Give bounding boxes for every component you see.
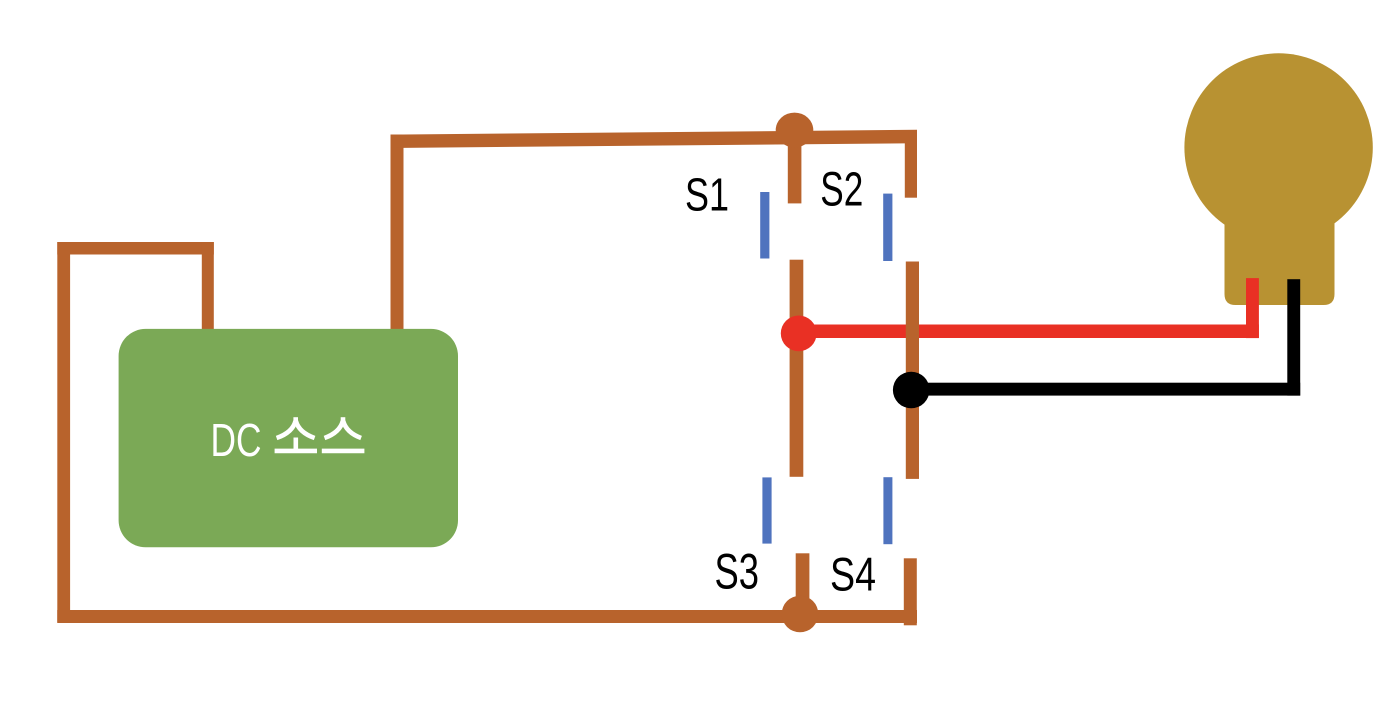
DC source box — [119, 329, 458, 547]
wire red horizontal (red dot to lamp) — [799, 325, 1259, 339]
wire top rail (slightly sloped) — [391, 130, 918, 148]
svg-text:S2: S2 — [820, 163, 863, 216]
wire black horizontal (black dot to lamp) — [911, 383, 1300, 396]
wire S3 lower stub — [796, 553, 810, 620]
switch S2 blue contact — [883, 194, 892, 261]
svg-text:S3: S3 — [715, 544, 760, 600]
wire S4 lower stub — [904, 558, 917, 625]
node top junction (brown dot) — [776, 113, 814, 148]
lamp bulb (gold globe) — [1184, 53, 1372, 241]
node black junction dot — [893, 372, 930, 409]
wire S2-S4 middle leg — [906, 262, 919, 479]
svg-text:DC: DC — [211, 414, 262, 466]
wire DC source to top rail vertical — [391, 135, 404, 335]
wire red vertical stub into lamp — [1246, 278, 1259, 338]
svg-text:S4: S4 — [830, 548, 876, 601]
switch S1 blue contact — [760, 192, 769, 259]
switch S4 blue contact — [883, 477, 892, 544]
wire bottom rail horizontal — [57, 610, 917, 623]
wire black vertical stub into lamp — [1287, 279, 1300, 395]
wire S1 upper stub — [788, 142, 802, 203]
wire left outer vertical — [57, 242, 70, 623]
wire S2 upper stub — [905, 142, 917, 198]
DC source label hangul "스" — [322, 417, 365, 451]
wire small-loop right vertical into DC source — [202, 242, 214, 335]
node bottom junction (brown dot) — [782, 596, 819, 633]
switch S3 blue contact — [762, 477, 771, 543]
DC source label hangul "소" — [275, 417, 317, 451]
svg-text:S1: S1 — [685, 169, 729, 221]
wire S1-S3 middle leg — [790, 260, 804, 477]
wire small-loop top horizontal — [57, 242, 214, 255]
lamp base — [1225, 190, 1335, 305]
node red junction dot — [781, 316, 817, 352]
